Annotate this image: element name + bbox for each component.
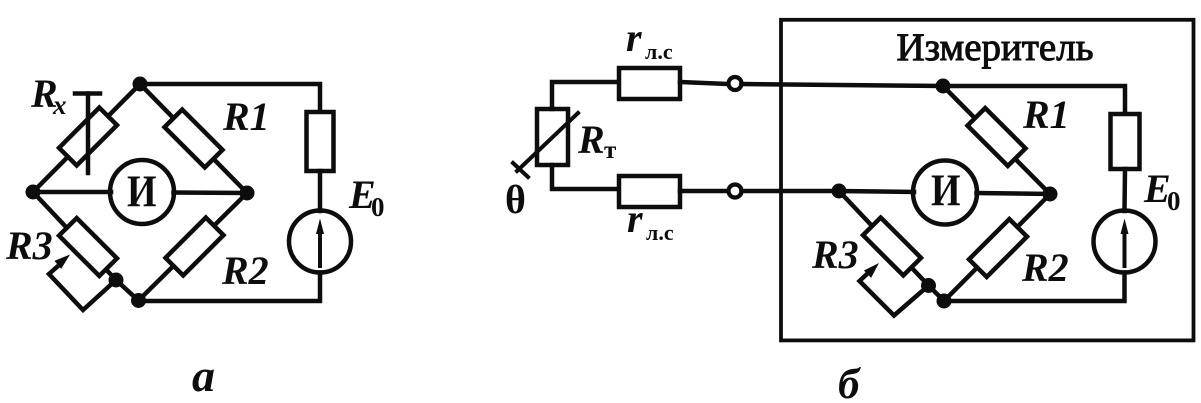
svg-text:л.с: л.с	[645, 39, 673, 64]
svg-text:И: И	[127, 167, 157, 217]
node bridge top	[936, 79, 951, 94]
wire resistor to source	[318, 171, 323, 211]
wire left node to meter	[839, 191, 914, 192]
svg-text:R3: R3	[5, 223, 53, 268]
node bridge bottom	[937, 294, 952, 309]
wire terminal to bridge left node	[742, 189, 840, 194]
resistor R3	[59, 218, 117, 276]
node bridge right	[1043, 187, 1058, 202]
node R3 junction	[921, 278, 936, 293]
label R1	[222, 94, 270, 139]
svg-text:R: R	[577, 117, 605, 162]
svg-text:r: r	[627, 196, 643, 241]
resistor R2	[969, 219, 1027, 277]
wire to bottom terminal	[680, 189, 729, 194]
wire to top terminal	[680, 82, 729, 84]
svg-text:л.с: л.с	[646, 220, 674, 245]
resistor R1	[968, 108, 1026, 166]
resistor r line top	[619, 68, 680, 99]
source arrow	[316, 219, 324, 267]
node R3 junction	[109, 273, 124, 288]
node right	[240, 186, 255, 201]
wire R3 junction to bottom node	[116, 280, 139, 301]
svg-text:θ: θ	[505, 177, 526, 222]
resistor r line bottom	[619, 176, 680, 207]
svg-text:И: И	[931, 166, 961, 216]
wire left node to meter	[33, 190, 111, 195]
op meter U "И" circle	[110, 160, 174, 224]
label И	[931, 166, 961, 216]
svg-text:R1: R1	[1022, 92, 1070, 137]
terminal top	[729, 77, 742, 90]
node bridge left	[832, 184, 847, 199]
svg-text:Измеритель: Измеритель	[897, 26, 1094, 69]
wire meter to right node	[174, 190, 248, 195]
resistor (ballast) in E0 branch	[307, 112, 334, 171]
node left	[26, 185, 41, 200]
wire top-right branch (T to R)	[140, 84, 247, 193]
svg-text:R2: R2	[1021, 245, 1069, 290]
label theta	[505, 177, 526, 222]
label R2	[221, 248, 269, 293]
svg-text:0: 0	[371, 192, 385, 222]
resistor R2	[166, 218, 224, 276]
label E0	[1143, 166, 1181, 216]
svg-text:0: 0	[1167, 186, 1181, 216]
source E0 circle	[1094, 211, 1156, 273]
R3 wiper arrow	[49, 255, 116, 311]
wire terminal to bridge top node	[742, 84, 944, 86]
svg-text:т: т	[604, 137, 616, 164]
node bottom	[131, 293, 146, 308]
svg-text:R3: R3	[811, 232, 859, 277]
terminal bottom	[729, 185, 742, 198]
wire R3 junction to bottom node	[929, 286, 945, 302]
label E0	[348, 172, 385, 222]
svg-text:R2: R2	[221, 248, 269, 293]
label Измеритель	[897, 26, 1094, 69]
svg-text:r: r	[626, 15, 642, 60]
label R3	[5, 223, 53, 268]
label R2	[1021, 245, 1069, 290]
svg-text:а: а	[192, 350, 215, 401]
label Rt	[577, 117, 616, 164]
label a	[192, 350, 215, 401]
label Rx	[30, 71, 67, 120]
wire bottom-right branch (B to R)	[139, 193, 248, 301]
thermistor Rt body	[537, 109, 568, 165]
svg-text:б: б	[838, 361, 861, 403]
Rx trimmer T-bar	[75, 94, 100, 174]
R3 wiper arrow	[860, 263, 929, 316]
wire top-right branch (Tb to Rb)	[943, 86, 1050, 194]
enclosure box	[781, 20, 1194, 341]
wire bottom-left branch (L to R3 junction)	[33, 192, 116, 280]
svg-text:R1: R1	[222, 94, 270, 139]
label R3	[811, 232, 859, 277]
wire bottom-left branch (Lb to R3 junction)	[839, 191, 929, 286]
node top	[133, 77, 148, 92]
label R1	[1022, 92, 1070, 137]
wire source to bottom node	[944, 273, 1125, 302]
resistor Rx	[59, 108, 117, 166]
label И	[127, 167, 157, 217]
resistor (ballast) in E0 branch	[1111, 114, 1140, 169]
wire source to bottom node	[139, 273, 321, 302]
wire Rt bottom to line resistor	[552, 165, 619, 189]
thermistor diagonal stroke	[513, 113, 578, 177]
label b	[838, 361, 861, 403]
svg-text:x: x	[52, 90, 67, 120]
wire bottom-right branch (Bb to Rb)	[944, 194, 1050, 301]
wire top node to E0 branch	[943, 86, 1125, 114]
wire top-left branch (L to T)	[33, 84, 140, 192]
label r l.s bottom	[627, 196, 674, 245]
source arrow	[1121, 219, 1129, 267]
label r l.s top	[626, 15, 673, 64]
resistor R1	[165, 110, 223, 168]
wire resistor to source	[1122, 169, 1127, 211]
meter И circle	[913, 161, 977, 225]
wire top node to E0 branch	[140, 84, 320, 112]
wire Rt top to line resistor	[552, 82, 619, 109]
resistor R3	[863, 218, 921, 276]
wire meter to right node	[977, 193, 1051, 194]
source E0 circle	[289, 211, 351, 273]
